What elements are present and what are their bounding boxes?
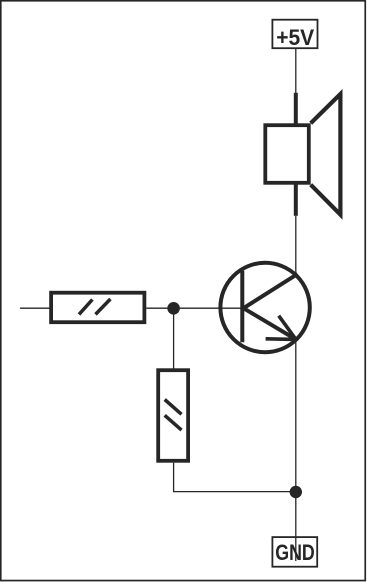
node junction dot 1 [167, 302, 180, 315]
node junction dot 2 [290, 486, 302, 498]
speaker LS1 [265, 93, 340, 216]
wire emitter to dot2 [295, 341, 297, 492]
wire input terminal to R1 [20, 307, 50, 309]
resistor R2 (vertical) [158, 370, 188, 461]
transistor Q1 [220, 263, 309, 352]
ground label box GND [272, 537, 317, 567]
resistor R1 (horizontal) [51, 293, 144, 323]
wire +5V box to speaker [295, 48, 297, 94]
svg-text:+5V: +5V [276, 25, 314, 50]
wire dot1 to R2 [173, 308, 175, 369]
supply label box +5V [272, 20, 317, 49]
wire R1 to base [146, 307, 242, 309]
wire dot2 to GND box [295, 492, 297, 561]
wire speaker to collector [295, 216, 297, 276]
svg-text:GND: GND [275, 540, 315, 565]
wire R2 to dot2 [174, 463, 296, 492]
